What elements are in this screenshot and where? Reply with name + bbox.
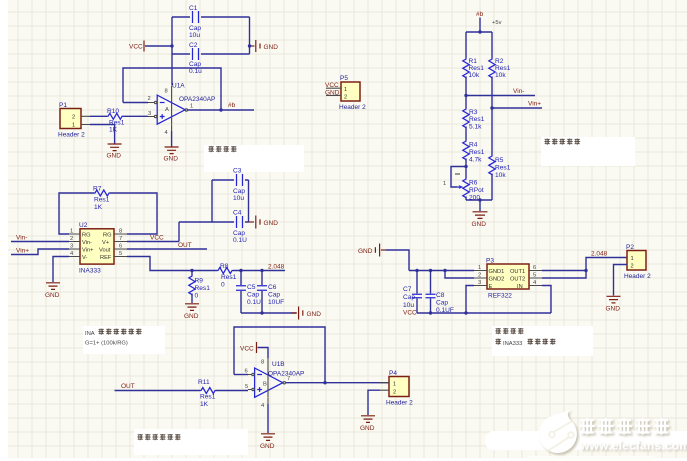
svg-text:IN: IN xyxy=(517,284,523,290)
svg-text:10u: 10u xyxy=(189,32,200,39)
svg-text:R5: R5 xyxy=(495,157,504,164)
wire U1B pin4 to ground xyxy=(267,404,269,433)
svg-text:0: 0 xyxy=(195,293,199,300)
svg-text:REF: REF xyxy=(100,255,112,261)
svg-text:1K: 1K xyxy=(200,401,209,408)
wire Vin- xyxy=(466,95,535,97)
wire P4 pin2 to ground xyxy=(368,390,380,415)
svg-text:GND: GND xyxy=(360,425,375,432)
wire Vin+ xyxy=(492,107,542,109)
svg-text:GND: GND xyxy=(358,248,373,255)
svg-text:P3: P3 xyxy=(486,258,494,265)
resistor R8 xyxy=(217,263,237,289)
junction C8 top xyxy=(429,269,432,272)
wire bridge top stub xyxy=(479,18,481,33)
svg-text:GND: GND xyxy=(606,306,621,313)
wire R6 wiper loop xyxy=(451,167,466,188)
svg-text:U1B: U1B xyxy=(272,361,285,368)
svg-text:R9: R9 xyxy=(195,278,204,285)
resistor R11 xyxy=(198,379,216,408)
wire Vin+ input xyxy=(11,249,69,255)
svg-text:GND: GND xyxy=(107,153,122,160)
capacitor C4 xyxy=(233,210,247,245)
svg-text:A: A xyxy=(165,107,169,113)
svg-text:Cap: Cap xyxy=(233,230,245,237)
svg-text:1K: 1K xyxy=(109,127,118,134)
wire GND to rail xyxy=(386,250,409,271)
text 电子发烧友 xyxy=(580,418,596,435)
power port GND (C1C2) xyxy=(250,40,279,52)
svg-text:INA333: INA333 xyxy=(79,268,101,275)
connector P1 xyxy=(58,102,90,139)
wire pin4 IN xyxy=(542,286,551,314)
svg-text:Res1: Res1 xyxy=(469,116,485,123)
wire U1A output xyxy=(188,109,255,111)
svg-text:3: 3 xyxy=(478,280,481,286)
svg-text:R4: R4 xyxy=(469,142,478,149)
svg-text:www.elecfans.com: www.elecfans.com xyxy=(579,439,687,453)
junction pin3 bottom xyxy=(464,311,467,314)
svg-text:G=1+ (100k/RG): G=1+ (100k/RG) xyxy=(85,341,128,347)
svg-text:VCC: VCC xyxy=(129,44,143,51)
watermark band xyxy=(485,431,687,450)
svg-text:2: 2 xyxy=(344,95,347,101)
svg-text:P5: P5 xyxy=(340,75,348,82)
svg-text:10u: 10u xyxy=(403,302,414,309)
wire RG loop right xyxy=(110,193,157,234)
power port VCC xyxy=(129,41,172,52)
note box: output buffer xyxy=(134,429,248,455)
wire R8 to 2.048 xyxy=(233,270,285,272)
note box: INA core amplifier xyxy=(83,326,165,354)
wire RG loop left xyxy=(59,193,94,234)
svg-text:0: 0 xyxy=(221,282,225,289)
svg-text:+5v: +5v xyxy=(492,20,502,26)
wire R5 to bottom rail xyxy=(491,174,493,201)
svg-text:C6: C6 xyxy=(268,284,277,291)
svg-text:R11: R11 xyxy=(198,379,210,386)
wire R11 to U1B pin5 xyxy=(216,390,248,392)
svg-text:1: 1 xyxy=(478,265,481,271)
junction pin2 tap xyxy=(443,269,446,272)
svg-text:GND: GND xyxy=(264,220,279,227)
wire V- to ground xyxy=(53,257,69,283)
wire Vin- input xyxy=(11,241,69,243)
svg-text:8: 8 xyxy=(119,229,122,235)
svg-text:P4: P4 xyxy=(389,370,397,377)
wire U1A pin2 xyxy=(123,102,148,104)
svg-text:OUT: OUT xyxy=(121,383,135,390)
op-amp U1B xyxy=(245,358,305,409)
ground (R9) xyxy=(184,304,199,320)
capacitor C6 xyxy=(257,271,284,314)
svg-text:GND: GND xyxy=(472,221,487,228)
svg-text:Cap: Cap xyxy=(189,25,201,32)
svg-text:10UF: 10UF xyxy=(268,299,284,306)
junction C8 bottom xyxy=(429,311,432,314)
svg-text:5: 5 xyxy=(533,273,536,279)
svg-text:C7: C7 xyxy=(403,286,412,293)
connector P4 xyxy=(380,370,413,407)
svg-text:2: 2 xyxy=(478,273,481,279)
wire C4 rail to VCC row xyxy=(178,222,180,242)
svg-text:R6: R6 xyxy=(469,180,478,187)
junction pin6/pin5 xyxy=(584,269,587,272)
svg-text:#b: #b xyxy=(476,11,484,18)
svg-text:Vin+: Vin+ xyxy=(528,101,541,108)
svg-text:2: 2 xyxy=(631,264,634,270)
svg-text:Vin-: Vin- xyxy=(16,235,27,242)
svg-text:6: 6 xyxy=(119,244,122,250)
svg-text:8: 8 xyxy=(261,360,264,366)
svg-text:GND: GND xyxy=(325,90,340,97)
svg-text:Cap: Cap xyxy=(403,294,415,301)
wire R4 to R6 xyxy=(465,159,467,179)
text 去除纹波 xyxy=(208,146,214,152)
svg-text:Res1: Res1 xyxy=(469,149,485,156)
wire bridge left upper xyxy=(465,32,467,58)
svg-text:R8: R8 xyxy=(220,263,229,270)
svg-text:R2: R2 xyxy=(495,58,504,65)
wire bridge bottom rail xyxy=(466,199,492,201)
wire pin2 jog xyxy=(445,271,474,279)
wire C1C2 right vertical xyxy=(249,17,251,54)
wire C1C2 left vertical xyxy=(171,17,173,85)
capacitor C8 xyxy=(426,271,454,315)
IC U2 INA333 xyxy=(69,222,127,275)
svg-text:GND: GND xyxy=(264,44,279,51)
resistor R5 xyxy=(489,155,511,179)
svg-text:GND: GND xyxy=(260,443,275,450)
svg-text:GND1: GND1 xyxy=(489,269,505,275)
svg-text:Vout: Vout xyxy=(99,248,111,254)
svg-text:0.1u: 0.1u xyxy=(189,68,202,75)
wire U1B feedback xyxy=(234,327,325,383)
svg-text:E: E xyxy=(489,284,493,290)
wire bridge gnd stem xyxy=(479,200,481,211)
wire U1B pin6 xyxy=(234,374,248,376)
svg-text:0.1U: 0.1U xyxy=(247,299,261,306)
note box: level shift xyxy=(492,326,593,356)
capacitor C1 xyxy=(189,5,201,39)
svg-text:VCC: VCC xyxy=(325,82,339,89)
svg-text:Vin+: Vin+ xyxy=(16,248,29,255)
svg-text:C5: C5 xyxy=(247,284,256,291)
ground (U2 V-) xyxy=(45,283,60,299)
svg-text:INA333: INA333 xyxy=(503,341,522,347)
svg-text:Res1: Res1 xyxy=(195,285,211,292)
svg-text:Res1: Res1 xyxy=(109,120,125,127)
ground (P1) xyxy=(107,144,122,160)
svg-text:4: 4 xyxy=(261,403,265,409)
svg-text:1: 1 xyxy=(631,256,634,262)
potentiometer R6 xyxy=(443,174,484,202)
svg-text:U2: U2 xyxy=(79,222,88,229)
svg-text:4: 4 xyxy=(165,130,169,136)
svg-text:Cap: Cap xyxy=(247,292,259,299)
svg-text:OUT2: OUT2 xyxy=(510,277,525,283)
connector P5 xyxy=(326,75,366,111)
svg-text:GND: GND xyxy=(45,292,60,299)
IC U3 REF322 xyxy=(474,258,542,300)
wire OUT to R11 xyxy=(115,390,201,392)
svg-text:5.1k: 5.1k xyxy=(469,124,482,131)
wire R1 to Vin- junction xyxy=(465,77,467,109)
junction C7 top xyxy=(415,269,418,272)
svg-text:OPA2340AP: OPA2340AP xyxy=(179,96,215,103)
junction Vin+ xyxy=(490,106,493,109)
resistor R1 xyxy=(463,58,484,79)
svg-text:VCC: VCC xyxy=(403,310,417,317)
junction bridge bottom xyxy=(478,198,481,201)
svg-text:REF322: REF322 xyxy=(488,293,512,300)
logo trace xyxy=(549,422,574,451)
text 小信号电桥 xyxy=(544,139,550,145)
svg-text:GND: GND xyxy=(184,313,199,320)
svg-text:Header 2: Header 2 xyxy=(624,273,651,280)
svg-text:R3: R3 xyxy=(469,109,478,116)
wire pin5 OUT2 xyxy=(542,258,627,279)
junction U1B output/feedback xyxy=(323,381,326,384)
capacitor C5 xyxy=(236,271,261,314)
wire C3 top rail xyxy=(212,179,249,181)
wire OUT at pin6 xyxy=(127,248,207,250)
wire R9 to ground xyxy=(191,294,193,304)
note box: small signal bridge xyxy=(541,137,635,166)
connector P2 xyxy=(624,244,651,280)
svg-text:R10: R10 xyxy=(107,108,119,115)
svg-text:GND: GND xyxy=(164,156,179,163)
svg-text:OPA2340AP: OPA2340AP xyxy=(268,371,304,378)
svg-text:2: 2 xyxy=(148,96,151,102)
wire C1 top rail xyxy=(172,16,250,18)
svg-text:OUT1: OUT1 xyxy=(510,269,525,275)
power port GND (REF322 input) xyxy=(358,244,386,257)
wire REF pin5 xyxy=(127,257,217,271)
svg-text:V+: V+ xyxy=(102,240,110,246)
svg-text:1: 1 xyxy=(190,104,193,110)
svg-text:OUT: OUT xyxy=(178,242,192,249)
wire P2 pin2 to ground xyxy=(614,265,628,296)
svg-text:1: 1 xyxy=(393,382,396,388)
svg-text:C1: C1 xyxy=(189,5,198,12)
svg-text:6: 6 xyxy=(245,369,248,375)
svg-text:10k: 10k xyxy=(495,72,506,79)
svg-text:R7: R7 xyxy=(93,186,102,193)
svg-text:Res1: Res1 xyxy=(495,165,511,172)
svg-text:Vin+: Vin+ xyxy=(82,248,94,254)
svg-text:2.048: 2.048 xyxy=(268,264,285,271)
svg-text:Header 2: Header 2 xyxy=(58,132,85,139)
power port GND (C3C4) xyxy=(249,216,279,229)
ground (U1B pin4) xyxy=(260,434,275,450)
svg-text:0.1U: 0.1U xyxy=(233,237,247,244)
wire VCC at pin7 xyxy=(127,241,179,243)
svg-text:C4: C4 xyxy=(233,210,242,217)
junction R9 xyxy=(190,269,193,272)
svg-text:Vin-: Vin- xyxy=(82,240,92,246)
ground (P4) xyxy=(360,416,375,432)
svg-text:8: 8 xyxy=(165,89,168,95)
text 输出缓冲电路 xyxy=(137,434,143,440)
wire U1A pin4 to ground xyxy=(171,131,173,147)
wire bridge top rail xyxy=(466,31,492,33)
ground (U1A pin4) xyxy=(164,147,179,163)
capacitor C3 xyxy=(233,168,245,203)
svg-text:4.7k: 4.7k xyxy=(469,157,482,164)
resistor R3 xyxy=(463,108,485,131)
svg-text:3: 3 xyxy=(70,244,73,250)
svg-text:Res1: Res1 xyxy=(495,65,511,72)
svg-text:7: 7 xyxy=(119,236,122,242)
wire U1A feedback top xyxy=(123,68,221,110)
svg-text:3: 3 xyxy=(148,111,151,117)
power port GND (C5C6) xyxy=(291,307,321,320)
junction U1A output/feedback xyxy=(219,108,222,111)
svg-text:Cap: Cap xyxy=(233,188,245,195)
junction C6 top xyxy=(260,269,263,272)
svg-text:Res1: Res1 xyxy=(200,394,216,401)
svg-text:U1A: U1A xyxy=(172,83,185,90)
svg-text:C3: C3 xyxy=(233,168,242,175)
power port VCC (U1B) xyxy=(240,342,268,358)
wire bridge right upper xyxy=(491,32,493,58)
svg-text:#b: #b xyxy=(228,102,236,109)
svg-text:1: 1 xyxy=(70,229,73,235)
wire C5C6 bottom rail xyxy=(241,312,296,314)
svg-text:VCC: VCC xyxy=(240,346,254,353)
svg-text:1: 1 xyxy=(72,123,75,129)
svg-text:INA: INA xyxy=(85,331,95,337)
resistor R2 xyxy=(489,58,511,79)
svg-text:Res1: Res1 xyxy=(221,274,237,281)
text 给INA333基准电压 xyxy=(495,339,501,345)
wire pin6 OUT1 xyxy=(542,270,586,272)
text 电平转换 xyxy=(495,328,501,334)
capacitor C2 xyxy=(189,42,202,75)
svg-text:Cap: Cap xyxy=(268,292,280,299)
svg-text:1K: 1K xyxy=(94,204,103,211)
junction R6 wiper tap xyxy=(464,165,467,168)
svg-text:C8: C8 xyxy=(436,292,445,299)
wire C4 rail xyxy=(179,221,249,223)
junction GND/C1C2 xyxy=(248,44,251,47)
watermark logo and text xyxy=(539,409,687,454)
svg-text:V-: V- xyxy=(82,255,87,261)
svg-text:2: 2 xyxy=(72,115,75,121)
svg-text:6: 6 xyxy=(533,265,536,271)
svg-text:RPot: RPot xyxy=(469,187,484,194)
junction VCC/C1C2 xyxy=(170,44,173,47)
svg-text:VCC: VCC xyxy=(150,235,164,242)
svg-text:Header 2: Header 2 xyxy=(339,104,366,111)
ground (bridge) xyxy=(472,212,488,228)
svg-text:Cap: Cap xyxy=(436,300,448,307)
wire P1 pin1 to ground xyxy=(90,125,115,144)
svg-text:C2: C2 xyxy=(189,42,198,49)
resistor R9 xyxy=(189,271,210,300)
svg-text:Res1: Res1 xyxy=(469,65,485,72)
svg-text:Vin-: Vin- xyxy=(513,88,524,95)
svg-text:1: 1 xyxy=(344,87,347,93)
svg-text:1: 1 xyxy=(443,181,446,187)
svg-text:10u: 10u xyxy=(233,195,244,202)
wire U1B output xyxy=(286,382,389,384)
svg-text:10k: 10k xyxy=(469,72,480,79)
svg-text:P2: P2 xyxy=(626,244,634,251)
svg-text:2: 2 xyxy=(70,236,73,242)
svg-text:Res1: Res1 xyxy=(94,197,110,204)
svg-text:2.048: 2.048 xyxy=(591,251,608,258)
svg-text:Header 2: Header 2 xyxy=(386,400,413,407)
op-amp U1A xyxy=(148,83,216,137)
wire REF bottom rail xyxy=(417,312,551,314)
wire R6 to bottom rail xyxy=(465,197,467,201)
logo circle xyxy=(539,409,577,454)
svg-text:P1: P1 xyxy=(59,102,67,109)
svg-text:Cap: Cap xyxy=(189,61,201,68)
resistor R7 xyxy=(93,186,110,212)
wire R3 to R4 xyxy=(465,127,467,141)
svg-text:B: B xyxy=(263,382,267,388)
resistor R10 xyxy=(90,108,148,134)
svg-text:5: 5 xyxy=(119,251,122,257)
junction C6 bottom xyxy=(260,311,263,314)
svg-text:GND: GND xyxy=(307,311,322,318)
svg-text:10k: 10k xyxy=(495,172,506,179)
wire C2 rail xyxy=(172,53,250,55)
ground (P2) xyxy=(606,296,621,312)
svg-text:5: 5 xyxy=(245,384,248,390)
junction bridge top xyxy=(478,30,481,33)
note box: ripple removal xyxy=(204,145,304,172)
junction Vin- xyxy=(464,94,467,97)
svg-text:GND2: GND2 xyxy=(489,277,505,283)
svg-text:2: 2 xyxy=(393,390,396,396)
svg-text:RG: RG xyxy=(82,233,91,239)
wire pin3 (E) xyxy=(466,286,474,314)
wire C3C4 right vertical xyxy=(248,180,250,222)
svg-text:RG: RG xyxy=(103,233,112,239)
wire R2 to Vin+ junction xyxy=(491,77,493,156)
svg-text:R1: R1 xyxy=(469,58,478,65)
wire C3C4 left vertical xyxy=(211,180,213,222)
wire REF top rail xyxy=(409,270,474,272)
capacitor C7 xyxy=(403,271,422,314)
resistor R4 xyxy=(463,140,485,164)
junction C5 top xyxy=(239,269,242,272)
